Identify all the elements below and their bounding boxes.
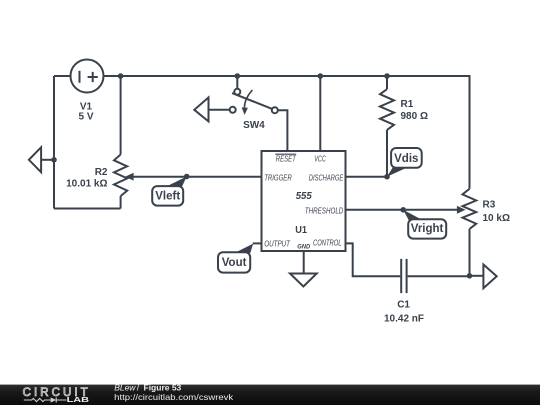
wire SW4 top contact stub: [236, 76, 238, 89]
junction node at SW4 top: [235, 73, 241, 79]
svg-text:10.42 nF: 10.42 nF: [384, 314, 424, 325]
svg-text:SW4: SW4: [243, 120, 265, 131]
ground symbol: [290, 274, 317, 287]
svg-text:R1: R1: [401, 99, 414, 110]
svg-text:U1: U1: [295, 224, 307, 236]
wire R2 bottom stub: [120, 196, 122, 208]
net label flag Vdis: [387, 148, 422, 177]
svg-text:Vleft: Vleft: [155, 190, 180, 202]
svg-text:VCC: VCC: [314, 154, 326, 163]
wire R1 bottom to DISCHARGE: [386, 130, 388, 177]
label R2 value: [66, 167, 108, 190]
wire VCC stub: [319, 76, 321, 151]
resistor R1: [380, 89, 394, 130]
svg-text:RESET: RESET: [276, 154, 297, 163]
node flag at SW4 (net arrow): [194, 98, 208, 122]
label R3 value: [483, 199, 510, 224]
wire left flag to rail: [41, 159, 54, 161]
capacitor C1 plates: [401, 259, 406, 293]
resistor R2 (potentiometer body): [114, 155, 127, 197]
wire bottom left to R2 bottom: [54, 208, 121, 210]
svg-text:R2: R2: [95, 167, 108, 178]
resistor R3 (potentiometer body): [463, 189, 477, 229]
svg-text:GND: GND: [297, 245, 311, 251]
wire R3 bottom stub: [469, 229, 471, 276]
label C1 value: [384, 300, 424, 325]
svg-text:C1: C1: [397, 300, 410, 311]
node flag right (net arrow): [483, 265, 496, 289]
net label flag Vright: [403, 210, 446, 239]
wire SW4 common to RESET pin: [278, 110, 288, 151]
wire V1 left lead: [54, 75, 71, 77]
wire THRESHOLD pin to R3 wiper: [346, 209, 458, 211]
IC U1 555 box: [262, 151, 346, 251]
wire CONTROL pin to C1: [346, 243, 401, 276]
svg-text:LAB: LAB: [67, 395, 90, 404]
junction node at R2 top: [118, 73, 124, 79]
wire node to right flag: [470, 275, 484, 277]
svg-text:Vdis: Vdis: [394, 153, 418, 165]
label V1: [78, 101, 93, 122]
voltage source V1: [71, 60, 104, 93]
switch SW4 toggle arc arrow: [242, 90, 253, 115]
wire GND stub: [303, 251, 305, 274]
svg-text:http://circuitlab.com/cswrevk: http://circuitlab.com/cswrevk: [114, 392, 234, 402]
net label flag Vleft: [152, 177, 187, 206]
junction node Vleft: [184, 174, 190, 180]
junction node Vright: [400, 207, 406, 213]
CircuitLab logo resistor-diode glyph: [24, 397, 67, 402]
wire R1 top stub: [386, 76, 388, 89]
wire R2 wiper to TRIGGER pin: [133, 176, 262, 178]
svg-text:980 Ω: 980 Ω: [401, 111, 428, 122]
net label flag Vout: [218, 244, 253, 273]
wire DISCHARGE pin: [346, 176, 388, 178]
switch SW4 top contact: [234, 89, 240, 95]
wire C1 right to R3 bottom node: [408, 275, 470, 277]
pin label RESET with overline: [275, 154, 296, 163]
junction node Vdis: [384, 174, 390, 180]
footer title BLew / Figure 53: [114, 383, 181, 393]
svg-text:555: 555: [296, 190, 312, 202]
svg-text:5 V: 5 V: [78, 112, 93, 123]
svg-text:DISCHARGE: DISCHARGE: [309, 173, 344, 182]
junction node C1-R3: [467, 273, 473, 279]
label R1 value: [401, 99, 428, 122]
R3 wiper arrowhead: [457, 206, 466, 214]
wire OUTPUT stub: [253, 242, 262, 244]
svg-text:10.01 kΩ: 10.01 kΩ: [66, 179, 107, 190]
wire left vertical rail: [53, 76, 55, 209]
svg-text:R3: R3: [483, 199, 496, 210]
switch SW4 left contact: [230, 107, 236, 113]
svg-text:OUTPUT: OUTPUT: [264, 239, 290, 248]
R2 wiper arrowhead: [125, 173, 133, 181]
junction node at VCC: [318, 73, 324, 79]
footer bar: [0, 385, 540, 405]
wire SW4 flag lead: [209, 109, 231, 111]
switch SW4 blade: [232, 93, 272, 109]
junction node at R1 top: [384, 73, 390, 79]
node flag left (net arrow): [29, 147, 41, 172]
wire top bus from V1 to right corner down to R3 top: [104, 76, 470, 189]
svg-text:THRESHOLD: THRESHOLD: [305, 206, 344, 215]
svg-text:CONTROL: CONTROL: [313, 239, 342, 248]
svg-text:10 kΩ: 10 kΩ: [483, 213, 510, 224]
junction node at left flag: [51, 157, 57, 163]
switch SW4 common contact: [272, 107, 278, 113]
svg-text:TRIGGER: TRIGGER: [264, 173, 292, 182]
svg-text:Vright: Vright: [411, 223, 444, 235]
wire R2 top stub: [120, 76, 122, 155]
svg-text:Vout: Vout: [222, 257, 247, 269]
